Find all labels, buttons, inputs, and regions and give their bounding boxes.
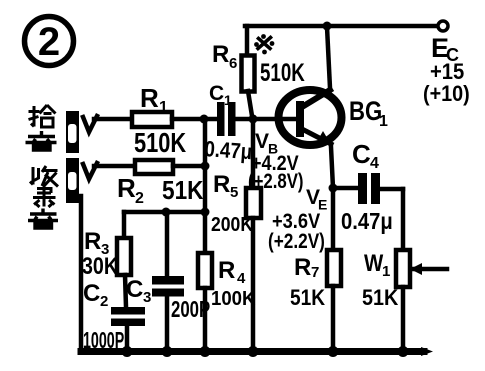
收 bbox=[30, 166, 58, 187]
svg-text:510K: 510K bbox=[260, 58, 305, 86]
svg-text:3: 3 bbox=[143, 289, 151, 306]
svg-text:51K: 51K bbox=[362, 286, 398, 310]
rail node dot C2 bbox=[122, 346, 133, 357]
wire input to R1 bbox=[94, 117, 132, 122]
resistor R6 bbox=[212, 26, 305, 119]
resistor R3 bbox=[82, 212, 131, 307]
svg-text:30K: 30K bbox=[82, 252, 118, 279]
svg-text:51K: 51K bbox=[162, 177, 204, 206]
svg-text:100K: 100K bbox=[211, 288, 255, 310]
svg-text:R: R bbox=[294, 254, 311, 281]
resistor R4 bbox=[198, 212, 255, 352]
wire R1 to node bbox=[172, 117, 205, 122]
resistor R2 bbox=[117, 160, 204, 207]
svg-text:5: 5 bbox=[230, 184, 238, 201]
asterisk mark bbox=[254, 34, 274, 54]
wire collector to rail bbox=[327, 27, 330, 88]
node A dot R1/C1 bbox=[200, 115, 209, 124]
wire base node to transistor bbox=[253, 117, 297, 122]
wire C1 to base node bbox=[235, 117, 253, 122]
wire emitter down bbox=[331, 147, 333, 188]
top supply rail bbox=[245, 24, 436, 29]
node dot emitter bbox=[329, 184, 338, 193]
figure number circle 2 bbox=[25, 17, 74, 66]
input jack socket upper bbox=[66, 111, 79, 153]
label 拾音 (pickup input, drawn glyphs) bbox=[26, 105, 57, 150]
svg-text:1: 1 bbox=[382, 263, 390, 280]
plug contact V lower bbox=[83, 163, 97, 179]
svg-text:4: 4 bbox=[237, 270, 246, 287]
input jack socket lower bbox=[66, 158, 79, 203]
resistor R1 bbox=[132, 83, 186, 159]
node dot collector rail bbox=[323, 22, 332, 31]
svg-text:6: 6 bbox=[229, 55, 237, 72]
svg-text:1: 1 bbox=[159, 99, 168, 116]
svg-text:R: R bbox=[84, 228, 101, 255]
svg-text:R: R bbox=[140, 83, 159, 113]
svg-text:C: C bbox=[83, 280, 100, 307]
node dot R2 bbox=[201, 162, 210, 171]
拾 bbox=[29, 105, 56, 127]
svg-text:R: R bbox=[117, 173, 136, 203]
svg-text:0.47μ: 0.47μ bbox=[204, 138, 253, 165]
音 bbox=[28, 209, 58, 229]
wire R2 to node bbox=[173, 164, 205, 169]
svg-text:BG: BG bbox=[349, 97, 382, 127]
svg-text:1: 1 bbox=[379, 113, 388, 130]
svg-text:R: R bbox=[218, 257, 235, 284]
svg-text:V: V bbox=[255, 130, 269, 153]
svg-text:C: C bbox=[126, 276, 143, 303]
音 bbox=[26, 131, 57, 150]
node dot y212 x205 bbox=[201, 208, 210, 217]
node dot base bbox=[249, 115, 258, 124]
rail node dot R4 bbox=[200, 346, 211, 357]
terminal EC bbox=[423, 21, 470, 106]
svg-text:2: 2 bbox=[38, 20, 60, 64]
svg-text:7: 7 bbox=[311, 264, 319, 281]
wire input to R2 bbox=[94, 164, 135, 169]
svg-text:200K: 200K bbox=[211, 213, 253, 235]
capacitor C4 bbox=[333, 139, 403, 234]
resistor R7 bbox=[290, 188, 341, 352]
录 bbox=[33, 187, 56, 208]
capacitor C2 bbox=[83, 280, 145, 354]
potentiometer W1 bbox=[362, 189, 447, 352]
svg-text:(+10): (+10) bbox=[423, 82, 470, 106]
svg-text:4: 4 bbox=[370, 155, 379, 172]
capacitor C1 bbox=[204, 82, 253, 165]
svg-text:0.47μ: 0.47μ bbox=[341, 208, 393, 235]
rail node dot R7 bbox=[328, 346, 339, 357]
ground rail bbox=[81, 348, 424, 355]
svg-text:1: 1 bbox=[224, 92, 232, 108]
svg-text:R: R bbox=[212, 41, 229, 68]
rail node dot C3 bbox=[162, 346, 173, 357]
label VE bbox=[306, 186, 327, 213]
transistor BG1 bbox=[279, 90, 389, 145]
wire vertical node column x205 bbox=[203, 119, 208, 213]
label 收录音 (recorder input, drawn glyphs) bbox=[28, 166, 58, 228]
svg-text:(+2.2V): (+2.2V) bbox=[268, 231, 325, 254]
svg-text:51K: 51K bbox=[290, 286, 325, 311]
svg-text:510K: 510K bbox=[134, 127, 186, 158]
svg-text:W: W bbox=[364, 249, 383, 276]
plug contact V upper bbox=[83, 116, 97, 132]
node line y212 bbox=[124, 210, 205, 215]
resistor R5 bbox=[211, 119, 261, 352]
svg-text:R: R bbox=[213, 171, 230, 198]
ground rail arrow end bbox=[421, 347, 433, 356]
rail node dot R5 bbox=[248, 346, 259, 357]
capacitor C3 bbox=[126, 212, 210, 352]
label VB bbox=[255, 130, 278, 157]
svg-text:2: 2 bbox=[100, 293, 108, 310]
svg-text:+15: +15 bbox=[430, 60, 465, 84]
svg-text:C: C bbox=[209, 82, 224, 105]
svg-text:C: C bbox=[352, 139, 371, 169]
ground wire left column bbox=[79, 196, 84, 352]
svg-text:2: 2 bbox=[135, 190, 144, 207]
rail node dot W1 bbox=[398, 346, 409, 357]
node dot y212 x166 bbox=[162, 208, 171, 217]
